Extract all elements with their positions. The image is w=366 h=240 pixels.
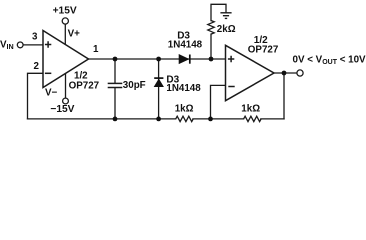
wire 2k to +in junction [210,34,212,59]
wire output rail (pin 1 to U2 +in) [89,58,226,60]
wire U2 output [274,72,297,74]
resistor R 1k (left, bottom rail) [176,116,193,121]
svg-text:1N4148: 1N4148 [168,40,203,51]
wire V- pin [65,73,67,98]
junction top rail / diode branch [156,57,161,62]
svg-text:VIN: VIN [0,39,14,51]
VIN input terminal [17,42,23,48]
diode D3 horizontal [179,55,190,64]
wire bottom rail left [28,118,176,120]
wire pin 2 input [28,73,44,119]
svg-text:2kΩ: 2kΩ [217,24,236,35]
junction top rail / cap [113,57,118,62]
svg-text:30pF: 30pF [123,80,146,91]
ground [220,13,231,19]
wire V+ pin [64,24,66,45]
wire bottom rail middle [193,118,244,120]
wire capacitor branch top [114,59,116,83]
op-amp U2 1/2 OP727 [226,45,275,100]
svg-text:OP727: OP727 [69,81,100,92]
svg-text:2: 2 [34,61,40,72]
resistor 2k (vertical) [208,21,214,35]
junction output node [282,71,287,76]
junction bottom rail / U2 -in [208,117,213,122]
svg-text:−15V: −15V [50,104,74,115]
svg-text:1N4148: 1N4148 [166,83,201,94]
op-amp U1 1/2 OP727 [43,31,89,88]
wire diode branch [158,59,160,119]
svg-text:+15V: +15V [53,6,77,17]
resistor R 1k (right, bottom rail) [244,116,261,121]
junction top rail / 2k [209,57,214,62]
svg-text:V+: V+ [68,28,81,39]
svg-text:1kΩ: 1kΩ [241,103,260,114]
V+ terminal [62,18,68,24]
junction bottom rail / cap [113,117,118,122]
output terminal [297,70,303,76]
svg-text:V−: V− [45,87,58,98]
wire bottom rail right [261,118,284,120]
junction bottom rail / diode branch [156,117,161,122]
capacitor C 30pF [108,83,123,87]
svg-text:1kΩ: 1kΩ [175,104,194,115]
wire output feedback vertical [283,73,285,119]
wire ground to 2k [211,4,226,20]
svg-text:1: 1 [93,44,99,55]
wire U2 -in branch [211,85,226,119]
diode D3 vertical [154,78,163,87]
wire capacitor branch bottom [114,88,116,119]
svg-text:3: 3 [32,32,38,43]
V- terminal [63,98,69,104]
wire VIN to pin 3 [23,44,43,46]
svg-text:OP727: OP727 [248,44,279,55]
